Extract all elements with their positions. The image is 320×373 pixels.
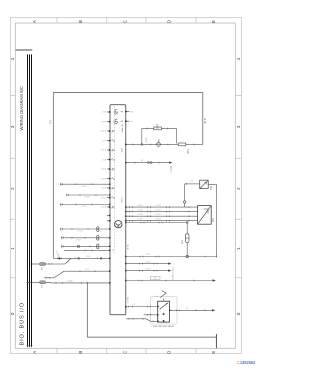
svg-text:1.0: 1.0 <box>186 308 189 310</box>
svg-text:0.75 B: 0.75 B <box>84 197 90 199</box>
svg-text:0.75 B: 0.75 B <box>101 178 107 180</box>
svg-text:0.75: 0.75 <box>85 269 89 271</box>
svg-text:(B89): (B89) <box>122 197 124 202</box>
svg-text:30: 30 <box>130 111 132 113</box>
svg-text:(C502): (C502) <box>173 274 175 280</box>
svg-text:0.75 Y: 0.75 Y <box>101 197 107 199</box>
svg-text:0.75 B: 0.75 B <box>155 218 161 220</box>
svg-text:D: D <box>167 20 172 23</box>
svg-text:15: 15 <box>130 121 132 123</box>
svg-text:0.75 B: 0.75 B <box>155 209 161 211</box>
svg-text:(C1): (C1) <box>50 120 52 125</box>
svg-text:0.75: 0.75 <box>190 181 194 183</box>
svg-text:WIRING DIAGRAM WC: WIRING DIAGRAM WC <box>19 86 24 130</box>
svg-text:BIO, BUS I/O: BIO, BUS I/O <box>19 302 25 345</box>
svg-text:S8814 B: S8814 B <box>122 124 124 133</box>
svg-text:0.75 B: 0.75 B <box>137 205 143 207</box>
svg-text:1.5 R: 1.5 R <box>86 256 91 258</box>
svg-text:0.75 B: 0.75 B <box>145 261 151 263</box>
svg-text:BWS: BWS <box>122 147 124 152</box>
svg-text:(C500): (C500) <box>171 166 173 173</box>
svg-text:0.75 B: 0.75 B <box>137 218 143 220</box>
svg-text:C: C <box>122 351 127 354</box>
svg-text:B: B <box>78 20 83 23</box>
svg-text:0.75 B: 0.75 B <box>155 205 161 207</box>
svg-text:D: D <box>167 351 172 354</box>
svg-text:0.75 B: 0.75 B <box>137 214 143 216</box>
svg-text:0.75 G: 0.75 G <box>101 150 107 152</box>
svg-text:0.75 B: 0.75 B <box>101 207 107 209</box>
svg-text:0.75 B: 0.75 B <box>75 239 81 241</box>
svg-text:E: E <box>211 20 216 23</box>
svg-text:DA: DA <box>211 218 215 222</box>
svg-text:0.75 B: 0.75 B <box>155 214 161 216</box>
svg-text:(C 89): (C 89) <box>128 297 130 303</box>
svg-text:0.75 B: 0.75 B <box>137 209 143 211</box>
svg-text:FUEL SHUTOFF VALVE: FUEL SHUTOFF VALVE <box>153 325 174 328</box>
svg-text:A: A <box>32 351 37 354</box>
svg-text:C2: C2 <box>113 249 115 251</box>
svg-text:0.75 B: 0.75 B <box>145 268 151 270</box>
svg-text:BP 4: BP 4 <box>156 123 159 129</box>
svg-text:0.75 B: 0.75 B <box>81 206 87 208</box>
svg-text:0.75 B: 0.75 B <box>77 231 83 233</box>
svg-text:B: B <box>78 351 83 354</box>
svg-text:C: C <box>122 20 127 23</box>
svg-text:E: E <box>211 351 216 354</box>
svg-text:1.5 W: 1.5 W <box>102 188 107 190</box>
svg-text:1.5 W: 1.5 W <box>68 280 73 282</box>
svg-text:94 B: 94 B <box>204 118 207 123</box>
svg-text:(C501): (C501) <box>173 267 175 273</box>
svg-text:(B 89): (B 89) <box>128 244 130 250</box>
svg-text:0.75 W: 0.75 W <box>101 131 107 133</box>
svg-text:14: 14 <box>141 160 143 162</box>
svg-text:C1352662: C1352662 <box>237 360 256 365</box>
svg-text:0.75: 0.75 <box>57 250 59 254</box>
svg-text:0.75 R: 0.75 R <box>101 169 107 171</box>
svg-text:BP 1: BP 1 <box>187 148 190 154</box>
svg-text:0.75 B: 0.75 B <box>81 186 87 188</box>
svg-text:(C503): (C503) <box>146 137 148 143</box>
svg-text:A: A <box>32 20 37 23</box>
svg-text:0.75 R: 0.75 R <box>101 121 107 123</box>
svg-text:ODD: ODD <box>158 138 160 143</box>
